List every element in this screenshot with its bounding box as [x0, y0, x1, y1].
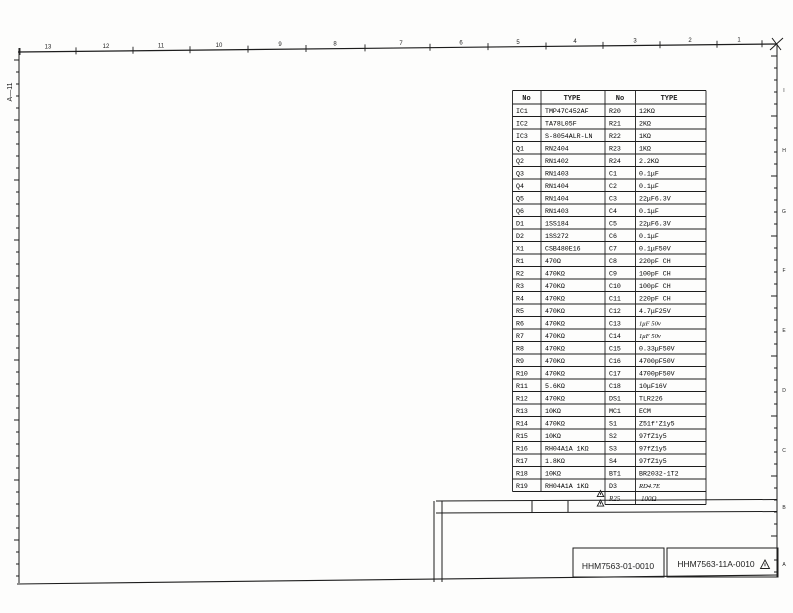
- svg-text:0.1μF: 0.1μF: [639, 233, 659, 240]
- svg-text:C11: C11: [609, 296, 621, 303]
- svg-text:R10: R10: [516, 371, 528, 378]
- svg-text:0.1μF50V: 0.1μF50V: [639, 246, 671, 253]
- border frame left edge: [14, 48, 19, 583]
- svg-text:10: 10: [216, 43, 223, 49]
- svg-text:220pF CH: 220pF CH: [639, 258, 671, 265]
- frame corner mark top-right: [770, 38, 783, 50]
- svg-text:RN1403: RN1403: [545, 208, 569, 215]
- svg-text:IC2: IC2: [516, 121, 528, 128]
- svg-text:4700pF50V: 4700pF50V: [639, 358, 675, 365]
- svg-text:13: 13: [45, 45, 52, 51]
- svg-text:RN1404: RN1404: [545, 196, 569, 203]
- svg-text:0.1μF: 0.1μF: [639, 183, 659, 190]
- svg-text:R6: R6: [516, 321, 524, 328]
- svg-text:470KΩ: 470KΩ: [545, 358, 565, 365]
- svg-text:2KΩ: 2KΩ: [639, 121, 651, 128]
- svg-text:Q6: Q6: [516, 208, 524, 215]
- svg-text:1KΩ: 1KΩ: [639, 146, 651, 153]
- svg-text:C6: C6: [609, 233, 617, 240]
- warning triangle title block: [761, 560, 770, 569]
- svg-text:2.2KΩ: 2.2KΩ: [639, 158, 659, 165]
- svg-text:C: C: [782, 448, 786, 454]
- svg-text:C9: C9: [609, 271, 617, 278]
- svg-text:4700pF50V: 4700pF50V: [639, 371, 675, 378]
- svg-text:R8: R8: [516, 346, 524, 353]
- svg-text:S2: S2: [609, 433, 617, 440]
- svg-text:1.8KΩ: 1.8KΩ: [545, 458, 565, 465]
- svg-text:220pF CH: 220pF CH: [639, 296, 671, 303]
- svg-text:0.1μF: 0.1μF: [639, 171, 659, 178]
- svg-text:G: G: [782, 209, 786, 215]
- svg-text:R20: R20: [609, 108, 621, 115]
- svg-text:C3: C3: [609, 196, 617, 203]
- svg-text:D3: D3: [609, 483, 617, 490]
- svg-text:0.33μF50V: 0.33μF50V: [639, 346, 675, 353]
- svg-text:RH04A1A 1KΩ: RH04A1A 1KΩ: [545, 446, 589, 453]
- svg-text:C12: C12: [609, 308, 621, 315]
- parts list table grid: [513, 91, 707, 505]
- svg-text:0.1μF: 0.1μF: [639, 208, 659, 215]
- svg-text:R4: R4: [516, 296, 524, 303]
- svg-text:Q5: Q5: [516, 196, 524, 203]
- svg-text:100Ω: 100Ω: [641, 495, 657, 503]
- svg-text:IC1: IC1: [516, 108, 528, 115]
- svg-text:RH04A1A 1KΩ: RH04A1A 1KΩ: [545, 483, 589, 490]
- svg-text:470Ω: 470Ω: [545, 258, 561, 265]
- svg-text:12: 12: [103, 44, 110, 50]
- svg-text:R2: R2: [516, 271, 524, 278]
- border frame top ruler line: [18, 44, 777, 52]
- svg-text:CSB480E16: CSB480E16: [545, 246, 581, 253]
- svg-text:Q1: Q1: [516, 146, 524, 153]
- svg-text:H: H: [782, 148, 786, 154]
- svg-text:R17: R17: [516, 458, 528, 465]
- svg-text:12KΩ: 12KΩ: [639, 108, 655, 115]
- svg-text:100pF CH: 100pF CH: [639, 283, 671, 290]
- zone letters right edge: [782, 88, 786, 568]
- svg-text:4.7μF25V: 4.7μF25V: [639, 308, 671, 315]
- svg-text:C10: C10: [609, 283, 621, 290]
- svg-text:TA78L05F: TA78L05F: [545, 121, 577, 128]
- svg-text:C13: C13: [609, 321, 621, 328]
- svg-text:1KΩ: 1KΩ: [639, 133, 651, 140]
- svg-text:No: No: [616, 95, 624, 103]
- svg-text:470KΩ: 470KΩ: [545, 296, 565, 303]
- svg-text:C18: C18: [609, 383, 621, 390]
- svg-text:D: D: [782, 388, 786, 394]
- svg-text:470KΩ: 470KΩ: [545, 333, 565, 340]
- svg-text:RN2404: RN2404: [545, 146, 569, 153]
- svg-text:TYPE: TYPE: [564, 95, 581, 103]
- svg-text:R11: R11: [516, 383, 528, 390]
- svg-text:R25: R25: [608, 495, 621, 503]
- svg-text:R19: R19: [516, 483, 528, 490]
- svg-text:470KΩ: 470KΩ: [545, 271, 565, 278]
- svg-text:Q2: Q2: [516, 158, 524, 165]
- svg-text:470KΩ: 470KΩ: [545, 421, 565, 428]
- svg-text:470KΩ: 470KΩ: [545, 283, 565, 290]
- border frame right edge: [771, 44, 777, 577]
- svg-text:R1: R1: [516, 258, 524, 265]
- svg-text:1μF 50v: 1μF 50v: [639, 321, 661, 328]
- svg-text:DS1: DS1: [609, 396, 621, 403]
- svg-text:R9: R9: [516, 358, 524, 365]
- svg-text:ECM: ECM: [639, 408, 651, 415]
- svg-text:470KΩ: 470KΩ: [545, 321, 565, 328]
- svg-text:C15: C15: [609, 346, 621, 353]
- svg-text:11: 11: [158, 43, 165, 49]
- svg-text:D1: D1: [516, 221, 524, 228]
- border frame bottom line: [17, 575, 777, 584]
- svg-text:97fZ1y5: 97fZ1y5: [639, 446, 667, 453]
- ruler tick marks top: [20, 40, 762, 55]
- svg-text:RD4.7E: RD4.7E: [638, 483, 660, 490]
- svg-text:HHM7563-01-0010: HHM7563-01-0010: [582, 561, 655, 571]
- svg-text:RN1402: RN1402: [545, 158, 569, 165]
- svg-text:5.6KΩ: 5.6KΩ: [545, 383, 565, 390]
- svg-text:C14: C14: [609, 333, 621, 340]
- svg-text:S4: S4: [609, 458, 617, 465]
- svg-text:10KΩ: 10KΩ: [545, 433, 561, 440]
- svg-text:C5: C5: [609, 221, 617, 228]
- drawing number box HHM7563-01-0010: [573, 548, 664, 577]
- svg-text:R5: R5: [516, 308, 524, 315]
- svg-text:I: I: [783, 88, 784, 94]
- svg-text:IC3: IC3: [516, 133, 528, 140]
- svg-text:100pF CH: 100pF CH: [639, 271, 671, 278]
- svg-text:HHM7563-11A-0010: HHM7563-11A-0010: [677, 559, 755, 569]
- svg-text:R22: R22: [609, 133, 621, 140]
- svg-text:R21: R21: [609, 121, 621, 128]
- svg-text:10μF16V: 10μF16V: [639, 383, 667, 390]
- svg-text:R7: R7: [516, 333, 524, 340]
- svg-text:97fZ1y5: 97fZ1y5: [639, 433, 667, 440]
- svg-text:22μF6.3V: 22μF6.3V: [639, 221, 671, 228]
- parts table header: [522, 95, 677, 103]
- ruler numbers 13..1: [45, 37, 742, 50]
- svg-text:BT1: BT1: [609, 471, 621, 478]
- svg-text:X1: X1: [516, 246, 524, 253]
- svg-text:C8: C8: [609, 258, 617, 265]
- svg-text:Q3: Q3: [516, 171, 524, 178]
- svg-text:R18: R18: [516, 471, 528, 478]
- svg-text:470KΩ: 470KΩ: [545, 308, 565, 315]
- svg-text:D2: D2: [516, 233, 524, 240]
- svg-text:C1: C1: [609, 171, 617, 178]
- svg-text:RN1403: RN1403: [545, 171, 569, 178]
- svg-text:R3: R3: [516, 283, 524, 290]
- svg-text:470KΩ: 470KΩ: [545, 371, 565, 378]
- svg-text:C4: C4: [609, 208, 617, 215]
- svg-text:R23: R23: [609, 146, 621, 153]
- svg-text:S1: S1: [609, 421, 617, 428]
- svg-text:TYPE: TYPE: [661, 95, 678, 103]
- svg-text:10KΩ: 10KΩ: [545, 408, 561, 415]
- svg-text:C2: C2: [609, 183, 617, 190]
- svg-text:TMP47C452AF: TMP47C452AF: [545, 108, 589, 115]
- svg-text:S3: S3: [609, 446, 617, 453]
- svg-text:C16: C16: [609, 358, 621, 365]
- svg-text:BR2032-1T2: BR2032-1T2: [639, 471, 679, 478]
- svg-text:470KΩ: 470KΩ: [545, 346, 565, 353]
- svg-text:C7: C7: [609, 246, 617, 253]
- svg-text:R12: R12: [516, 396, 528, 403]
- svg-text:R15: R15: [516, 433, 528, 440]
- svg-text:C17: C17: [609, 371, 621, 378]
- svg-text:97fZ1y5: 97fZ1y5: [639, 458, 667, 465]
- svg-text:1SS184: 1SS184: [545, 221, 569, 228]
- svg-text:R14: R14: [516, 421, 528, 428]
- svg-text:F: F: [782, 268, 785, 274]
- title block band: [434, 500, 777, 583]
- svg-text:R24: R24: [609, 158, 621, 165]
- svg-text:22μF6.3V: 22μF6.3V: [639, 196, 671, 203]
- svg-text:No: No: [522, 95, 530, 103]
- svg-text:MC1: MC1: [609, 408, 621, 415]
- svg-text:R16: R16: [516, 446, 528, 453]
- svg-text:Z51f'Z1y5: Z51f'Z1y5: [639, 421, 675, 428]
- warning triangles beside R25 row: [597, 490, 603, 496]
- svg-text:RN1404: RN1404: [545, 183, 569, 190]
- svg-text:S-8054ALR-LN: S-8054ALR-LN: [545, 133, 593, 140]
- svg-text:1SS272: 1SS272: [545, 233, 569, 240]
- svg-text:470KΩ: 470KΩ: [545, 396, 565, 403]
- svg-text:R13: R13: [516, 408, 528, 415]
- svg-text:Q4: Q4: [516, 183, 524, 190]
- svg-text:1μF 50v: 1μF 50v: [639, 333, 661, 340]
- svg-text:TLR226: TLR226: [639, 396, 663, 403]
- svg-text:A—11: A—11: [7, 82, 14, 101]
- svg-text:10KΩ: 10KΩ: [545, 471, 561, 478]
- drawing number box HHM7563-11A-0010: [667, 548, 778, 577]
